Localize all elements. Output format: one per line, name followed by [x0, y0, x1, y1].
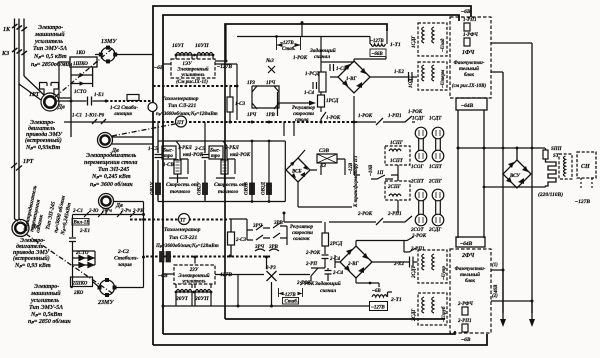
svg-text:1РВ: 1РВ — [266, 113, 276, 118]
resistor 2ШКО — [71, 277, 93, 287]
svg-text:перемещения стола: перемещения стола — [84, 160, 137, 166]
wire third frame loop — [225, 24, 445, 319]
svg-text:1СДТ: 1СДТ — [429, 117, 442, 122]
inductor 10УI — [176, 53, 192, 56]
wire СЭВ nets — [321, 159, 345, 175]
svg-text:сигнал: сигнал — [314, 54, 330, 60]
svg-text:Фазочувстви-: Фазочувстви- — [455, 267, 486, 272]
svg-text:2-РОК: 2-РОК — [299, 282, 315, 287]
svg-text:ОВ2Д: ОВ2Д — [262, 182, 267, 195]
svg-text:Быс-: Быс- — [162, 149, 174, 154]
svg-text:тро: тро — [211, 154, 220, 159]
svg-text:~Uгруб: ~Uгруб — [442, 306, 447, 322]
svg-text:23У: 23У — [189, 268, 199, 273]
block СН — [577, 152, 596, 178]
svg-text:2-Е2: 2-Е2 — [393, 262, 405, 267]
svg-text:Nₚ= 0,245 кВт: Nₚ= 0,245 кВт — [91, 174, 131, 180]
svg-text:2-РП1: 2-РП1 — [457, 319, 472, 324]
block stab sensor — [127, 95, 139, 101]
svg-text:КЗ: КЗ — [1, 51, 9, 57]
shaft band y256 — [146, 255, 272, 257]
svg-text:2ШКО: 2ШКО — [72, 282, 88, 287]
svg-text:К трансформатору ПТ: К трансформатору ПТ — [354, 154, 359, 208]
capacitor 2-С5 — [202, 141, 209, 200]
svg-text:nₚ= 2850об/мин: nₚ= 2850об/мин — [31, 61, 73, 68]
svg-text:1РЧ: 1РЧ — [247, 113, 257, 118]
svg-text:2-С4: 2-С4 — [332, 271, 344, 276]
svg-text:1КО: 1КО — [76, 51, 86, 56]
svg-text:2-С2: 2-С2 — [117, 249, 129, 255]
control winding box 2СДГ lower — [418, 293, 447, 325]
svg-text:2СДТ: 2СДТ — [412, 265, 417, 279]
svg-text:1-С1: 1-С1 — [72, 114, 82, 119]
svg-text:зация: зация — [117, 262, 132, 268]
svg-text:1-Е2: 1-Е2 — [394, 70, 405, 75]
wire 2ВГ nets — [335, 241, 418, 288]
svg-text:2ФЧ: 2ФЧ — [461, 253, 475, 259]
text EMU top — [31, 25, 73, 68]
svg-text:2-РБЛ: 2-РБЛ — [224, 146, 239, 151]
svg-text:20УII: 20УII — [194, 296, 209, 302]
wire 1ШКО to machine — [59, 62, 98, 98]
transformer СТ primary — [546, 160, 557, 187]
svg-text:1РЧ: 1РЧ — [266, 81, 276, 86]
svg-text:~6В: ~6В — [372, 289, 381, 294]
svg-text:13МУ: 13МУ — [101, 39, 117, 45]
svg-text:Задающий: Задающий — [309, 47, 336, 54]
switch 1К knife ticks — [12, 24, 27, 31]
svg-text:1-РОК: 1-РОК — [293, 56, 308, 61]
shaft band y86 — [153, 85, 237, 87]
text motor drive EMU top — [25, 120, 63, 151]
svg-text:КЗ: КЗ — [319, 164, 326, 169]
svg-text:~6В: ~6В — [461, 9, 471, 15]
svg-text:Nₚ= 0,5 кВт: Nₚ= 0,5 кВт — [33, 54, 67, 60]
svg-text:~127В: ~127В — [217, 64, 232, 70]
capacitor 2-С4 upper — [322, 246, 329, 268]
svg-text:стола: стола — [295, 118, 309, 123]
svg-text:1-Е1: 1-Е1 — [94, 93, 104, 98]
svg-text:ОВ2У: ОВ2У — [198, 182, 203, 195]
switch КЗ knife ticks — [12, 48, 27, 55]
wire amp2 nets — [163, 274, 352, 306]
svg-text:1-С2 Стаби-: 1-С2 Стаби- — [110, 106, 138, 111]
svg-text:Задающий: Задающий — [314, 280, 341, 287]
winding ОВ2Д — [267, 183, 272, 195]
text table motor — [84, 152, 137, 188]
wire 64V rails — [458, 110, 484, 238]
shaft band y122 with ПТ — [153, 121, 357, 123]
svg-text:Тип СЛ-221: Тип СЛ-221 — [169, 235, 198, 241]
wire selsyn feeders — [398, 122, 415, 213]
text salazki motor rotated — [22, 184, 73, 236]
svg-text:2СТО: 2СТО — [75, 251, 89, 256]
svg-text:(1): (1) — [492, 263, 498, 268]
tach ПТ circle — [176, 116, 187, 127]
svg-text:тельный: тельный — [460, 272, 480, 278]
svg-text:SПП: SПП — [551, 147, 563, 152]
svg-text:Тахогенератор: Тахогенератор — [162, 96, 199, 102]
svg-text:1-РП1: 1-РП1 — [388, 114, 402, 119]
svg-text:Скорость от: Скорость от — [214, 182, 247, 188]
svg-text:1-РФЧ: 1-РФЧ — [463, 33, 478, 38]
wire speed bus bottom — [158, 201, 285, 203]
mech link Дв to 23МУ — [26, 234, 112, 293]
svg-text:2-РФЧ: 2-РФЧ — [457, 302, 473, 307]
svg-text:Регулятор: Регулятор — [292, 106, 315, 111]
svg-text:~64В: ~64В — [460, 241, 473, 247]
svg-text:1РСД: 1РСД — [326, 99, 339, 104]
block ~64В top — [456, 98, 487, 110]
svg-text:2-Е1: 2-Е1 — [79, 229, 90, 234]
svg-text:2СПТ: 2СПТ — [410, 180, 425, 185]
transformer 1-Т1 secondary — [370, 49, 386, 57]
svg-text:Тип ЭП-245: Тип ЭП-245 — [98, 167, 129, 173]
svg-text:тельный: тельный — [459, 66, 479, 72]
svg-text:Тахогенератор: Тахогенератор — [164, 227, 201, 233]
svg-text:1СПТ: 1СПТ — [429, 165, 443, 170]
svg-text:Тип ЭМУ-5А: Тип ЭМУ-5А — [33, 46, 67, 52]
svg-text:СН: СН — [581, 164, 590, 170]
wire 2Р3 nets — [215, 257, 310, 306]
svg-text:2СПГ: 2СПГ — [387, 185, 402, 190]
svg-text:Стабили-: Стабили- — [114, 255, 138, 262]
svg-text:Быс-: Быс- — [209, 149, 221, 154]
svg-text:10УI: 10УI — [172, 43, 184, 49]
relay loop 1РЗ 1РЧ 1РВ — [252, 86, 279, 109]
svg-text:2-РП1: 2-РП1 — [387, 212, 402, 217]
block ~64В bottom — [456, 237, 485, 247]
amplidyne 23МУ — [100, 280, 115, 295]
rectifier ВСБ — [286, 158, 310, 182]
svg-text:1К: 1К — [3, 27, 11, 33]
svg-text:точного: точного — [170, 189, 191, 195]
svg-text:~10В: ~10В — [369, 164, 374, 176]
control winding box 1СДГ — [418, 23, 447, 56]
wire ВСБ nets — [298, 150, 352, 207]
wire speed bus top — [158, 140, 285, 142]
fuse SПП — [543, 150, 548, 159]
svg-text:2-РОК: 2-РОК — [235, 153, 251, 158]
capacitor 1-Е1 — [57, 97, 106, 106]
svg-text:1СДГ: 1СДГ — [412, 35, 417, 48]
svg-text:1СОГ: 1СОГ — [411, 165, 424, 170]
wire 3-phase supply lines — [15, 19, 25, 220]
svg-text:1-СВ: 1-СВ — [163, 163, 175, 168]
svg-text:усилитель: усилитель — [34, 39, 63, 45]
shaft band y219 with ТГ — [130, 218, 229, 220]
contact 1РТ breaks — [11, 163, 22, 171]
svg-text:№3: №3 — [265, 58, 274, 64]
wire bottom-left interconnect — [71, 251, 100, 288]
wire 2Т1 nets — [325, 222, 392, 306]
svg-text:Вкл-1В: Вкл-1В — [73, 221, 91, 226]
svg-text:2-Ю: 2-Ю — [88, 209, 99, 214]
svg-text:~6В: ~6В — [154, 65, 164, 71]
svg-text:двигатель: двигатель — [28, 125, 55, 132]
svg-text:Электронный: Электронный — [177, 67, 208, 73]
svg-text:1ЭУ: 1ЭУ — [182, 62, 192, 67]
wire ВСУ bottom — [484, 148, 546, 188]
svg-text:1СДГ: 1СДГ — [412, 117, 425, 122]
svg-text:Nₚ= 0,93 кВт: Nₚ= 0,93 кВт — [14, 263, 51, 269]
svg-text:(2): (2) — [492, 294, 498, 299]
svg-text:Электро-: Электро- — [38, 25, 63, 31]
thermal element 1РТ — [40, 83, 59, 96]
svg-text:46В: 46В — [494, 284, 499, 294]
wire center cross nets — [158, 96, 415, 222]
svg-text:машинный: машинный — [30, 290, 61, 297]
wire ФЧ2 outputs — [491, 270, 532, 301]
svg-text:1РТ: 1РТ — [23, 159, 34, 165]
resistor 1-С3 — [227, 97, 233, 112]
svg-text:Стаб.: Стаб. — [285, 300, 299, 305]
svg-text:1-РОК: 1-РОК — [358, 114, 373, 119]
svg-text:nₚ= 2850 об/мин: nₚ= 2850 об/мин — [28, 318, 71, 325]
svg-text:1СПГ: 1СПГ — [390, 141, 404, 146]
tach coupling circle — [148, 103, 157, 112]
wire AC bus — [458, 147, 545, 149]
svg-text:привода ЭМУ: привода ЭМУ — [26, 131, 63, 138]
rectifier bridge 1-ВГ — [338, 61, 370, 93]
svg-text:двигатель: двигатель — [16, 243, 43, 250]
motor Дв slide feed — [99, 194, 114, 209]
svg-text:2-Рч: 2-Рч — [120, 209, 131, 214]
svg-text:Фазочувстви-: Фазочувстви- — [454, 61, 485, 66]
wire 23МУ to band — [116, 202, 144, 288]
tach ТГ circle — [179, 214, 190, 225]
svg-text:1ШКО: 1ШКО — [73, 62, 88, 67]
rectifier bridge ВСУ — [503, 160, 531, 188]
svg-text:точного: точного — [218, 189, 239, 195]
svg-text:ВСУ: ВСУ — [509, 174, 520, 179]
svg-text:nₚ=3600об/мин;Nₚ=128мВт: nₚ=3600об/мин;Nₚ=128мВт — [156, 112, 218, 117]
resistor 1-РСД — [319, 72, 326, 92]
motor Дв table — [98, 133, 113, 148]
diode 2СТО group — [73, 256, 96, 268]
svg-text:2КО: 2КО — [73, 291, 84, 296]
svg-text:усилитель: усилитель — [181, 280, 206, 285]
svg-text:скорости: скорости — [292, 231, 313, 236]
svg-text:~Uтерм: ~Uтерм — [441, 69, 446, 88]
winding ОВ2У — [203, 183, 208, 195]
contact 1-РОК lower — [321, 107, 326, 122]
text motor drive EMU bottom — [13, 238, 51, 269]
svg-text:СЭВ: СЭВ — [319, 149, 330, 154]
svg-text:2-Рч: 2-Рч — [101, 209, 112, 214]
svg-text:2СОТ: 2СОТ — [410, 228, 424, 233]
resistor 1-РСД lower — [318, 95, 325, 107]
svg-text:1СТО: 1СТО — [74, 90, 87, 95]
svg-text:~64В: ~64В — [461, 103, 474, 109]
svg-text:(встроенный): (встроенный) — [25, 137, 62, 144]
svg-text:1-РОК: 1-РОК — [408, 110, 423, 115]
wire К трансформатору ПТ vertical — [354, 96, 398, 181]
svg-text:~Uупр: ~Uупр — [442, 266, 447, 280]
svg-text:2-С1: 2-С1 — [72, 209, 83, 214]
svg-text:~66В: ~66В — [372, 52, 384, 57]
wire motor2 to frame — [112, 137, 153, 144]
svg-text:1-РСД: 1-РСД — [305, 72, 320, 77]
svg-text:1-Т1: 1-Т1 — [390, 42, 401, 48]
text EMU bottom — [28, 284, 71, 325]
wire second frame loop — [163, 15, 459, 334]
svg-text:~127В: ~127В — [371, 306, 385, 311]
svg-text:1-Ю1-Р6: 1-Ю1-Р6 — [85, 114, 105, 119]
svg-text:1-С3: 1-С3 — [235, 102, 246, 107]
wire EMU1 armature loop — [71, 67, 93, 137]
svg-text:машинный: машинный — [34, 31, 65, 38]
arrow output 2 — [531, 301, 533, 320]
svg-text:(220/110В): (220/110В) — [538, 191, 563, 198]
resistor 2-С3 — [228, 232, 235, 245]
winding box 2СПГ — [385, 181, 410, 200]
wire motor3 to loop — [106, 202, 144, 215]
svg-text:2-С5: 2-С5 — [194, 147, 206, 152]
svg-text:~6В: ~6В — [461, 337, 471, 343]
svg-text:скорости: скорости — [293, 112, 314, 117]
wire ФЧ1 outputs — [491, 43, 532, 313]
svg-text:~127В: ~127В — [575, 199, 590, 205]
resistor 1-СВ — [174, 160, 181, 174]
svg-text:(встроенный): (встроенный) — [13, 255, 50, 262]
mech link Дв to 13МУ — [55, 48, 113, 97]
svg-text:1РТ: 1РТ — [29, 92, 40, 98]
svg-text:2-Т1: 2-Т1 — [390, 297, 402, 303]
arrow output 1 — [502, 270, 504, 320]
wire amp1 connections — [163, 24, 237, 120]
svg-text:1-С4: 1-С4 — [336, 67, 347, 72]
svg-text:Электродвигатель: Электродвигатель — [86, 152, 137, 159]
svg-text:лизация: лизация — [113, 112, 132, 117]
svg-text:Электро-: Электро- — [34, 284, 59, 290]
svg-text:тро: тро — [164, 154, 173, 159]
svg-text:сигнал: сигнал — [320, 288, 336, 294]
svg-text:привода ЭМУ: привода ЭМУ — [13, 249, 50, 256]
svg-text:~Uзад: ~Uзад — [441, 38, 446, 52]
rectifier bridge 2-ВГ — [340, 246, 372, 278]
amplidyne 13МУ — [101, 48, 115, 62]
svg-text:Тип СЛ-221: Тип СЛ-221 — [168, 103, 197, 109]
svg-text:2СПГ: 2СПГ — [428, 180, 443, 185]
wire coil drops — [176, 55, 213, 59]
svg-text:2-РП: 2-РП — [305, 262, 318, 267]
capacitor 1-С5 — [155, 141, 162, 200]
diode 1СТО pair — [80, 73, 85, 86]
inductor 20УII — [195, 290, 211, 293]
svg-text:Дв: Дв — [57, 105, 65, 111]
svg-text:1СПТ: 1СПТ — [390, 159, 404, 164]
svg-text:1-ВГ: 1-ВГ — [346, 77, 358, 82]
wire 13МУ to frame — [95, 54, 153, 56]
wire regulator arrow — [278, 92, 314, 116]
svg-text:Nₚ= 0,5кВт: Nₚ= 0,5кВт — [30, 312, 62, 318]
inductor 10УII — [197, 53, 213, 56]
svg-text:1ФЧ: 1ФЧ — [462, 50, 475, 56]
svg-text:(см рис.IX-10В): (см рис.IX-10В) — [452, 84, 487, 89]
winding ОВ1У — [156, 183, 161, 195]
wire 2-С3 vertical — [230, 219, 232, 257]
svg-text:1ОДТ: 1ОДТ — [409, 75, 414, 88]
svg-text:1-РОК: 1-РОК — [326, 116, 341, 121]
svg-text:усилитель: усилитель — [180, 73, 205, 78]
resistor 1ШКО — [70, 57, 97, 67]
svg-text:2-РОК: 2-РОК — [305, 251, 321, 256]
wire bridge nets — [237, 23, 417, 95]
svg-text:ВСБ: ВСБ — [291, 170, 302, 175]
block 1ЭУ electronic amplifier — [171, 59, 215, 78]
svg-text:10УII: 10УII — [195, 43, 209, 49]
svg-text:20УI: 20УI — [175, 296, 188, 302]
svg-text:(См рис.IX-11): (См рис.IX-11) — [176, 80, 208, 85]
wire feeder into motor — [15, 219, 22, 221]
mech link Дв to ПТ — [112, 123, 180, 136]
winding ОВ3В — [250, 183, 255, 195]
svg-text:Nₚ= 0,93кВт: Nₚ= 0,93кВт — [25, 145, 60, 151]
svg-text:Пₚ=3600об/мин;Nₚ=128мВт: Пₚ=3600об/мин;Nₚ=128мВт — [155, 244, 219, 249]
svg-text:2СДГ: 2СДГ — [428, 228, 442, 233]
motor Дв drive of EMU1 — [41, 93, 59, 111]
inductor 20УI — [176, 290, 192, 293]
svg-text:~12В: ~12В — [349, 162, 354, 174]
svg-text:Электронный: Электронный — [178, 273, 209, 279]
svg-text:nₚ= 3600 об/мин: nₚ= 3600 об/мин — [90, 181, 133, 188]
svg-text:блок: блок — [465, 279, 475, 284]
transformer СТ secondary — [559, 154, 572, 179]
svg-text:Стаб.: Стаб. — [282, 47, 296, 52]
svg-text:1РЗ: 1РЗ — [247, 81, 255, 86]
wire 1Т1 nets — [354, 24, 387, 61]
capacitor 1-С4 lower — [313, 82, 317, 89]
svg-text:23МУ: 23МУ — [97, 300, 114, 306]
svg-text:Скорость от: Скорость от — [166, 182, 199, 188]
control winding box 2СДГ upper — [418, 250, 447, 283]
svg-text:2-РОК: 2-РОК — [357, 212, 373, 217]
wire winding verticals — [158, 141, 285, 202]
svg-text:Тип ЭМУ-5А: Тип ЭМУ-5А — [29, 305, 63, 311]
block Вкл — [72, 219, 89, 226]
svg-text:ПТ: ПТ — [176, 121, 185, 126]
capacitor 1-С4 upper — [330, 64, 334, 71]
capacitor 2-Е2 — [410, 257, 414, 268]
svg-text:2-С3: 2-С3 — [235, 238, 247, 243]
svg-text:блок: блок — [464, 73, 474, 78]
wire phase bends to motor — [19, 76, 44, 100]
svg-text:1-С4: 1-С4 — [304, 91, 315, 96]
svg-text:Регулятор: Регулятор — [290, 225, 313, 230]
resistor 2-СВ — [221, 160, 228, 174]
wire stab link hatched — [106, 100, 153, 102]
svg-text:2РСД: 2РСД — [329, 242, 343, 247]
capacitor 1-Е2 — [409, 72, 413, 82]
capacitor 2-С4 lower — [325, 268, 332, 281]
svg-text:1-С5: 1-С5 — [148, 147, 159, 152]
control winding box 1ОДТ — [418, 62, 447, 90]
svg-text:ОВ3В: ОВ3В — [245, 182, 250, 195]
svg-text:ОВ1У: ОВ1У — [151, 182, 156, 195]
motor Дв salazki — [12, 220, 29, 237]
svg-text:2СДГ: 2СДГ — [412, 308, 417, 322]
svg-text:салазок: салазок — [293, 237, 310, 242]
wire outer frame loop — [153, 6, 487, 345]
svg-text:1-РП1: 1-РП1 — [463, 18, 477, 23]
svg-text:ТГ: ТГ — [180, 219, 187, 224]
resistor 2-РСД — [322, 233, 329, 246]
winding bars on band — [160, 252, 165, 263]
svg-text:2-ВГ: 2-ВГ — [347, 262, 360, 267]
svg-text:усилитель: усилитель — [30, 298, 59, 304]
